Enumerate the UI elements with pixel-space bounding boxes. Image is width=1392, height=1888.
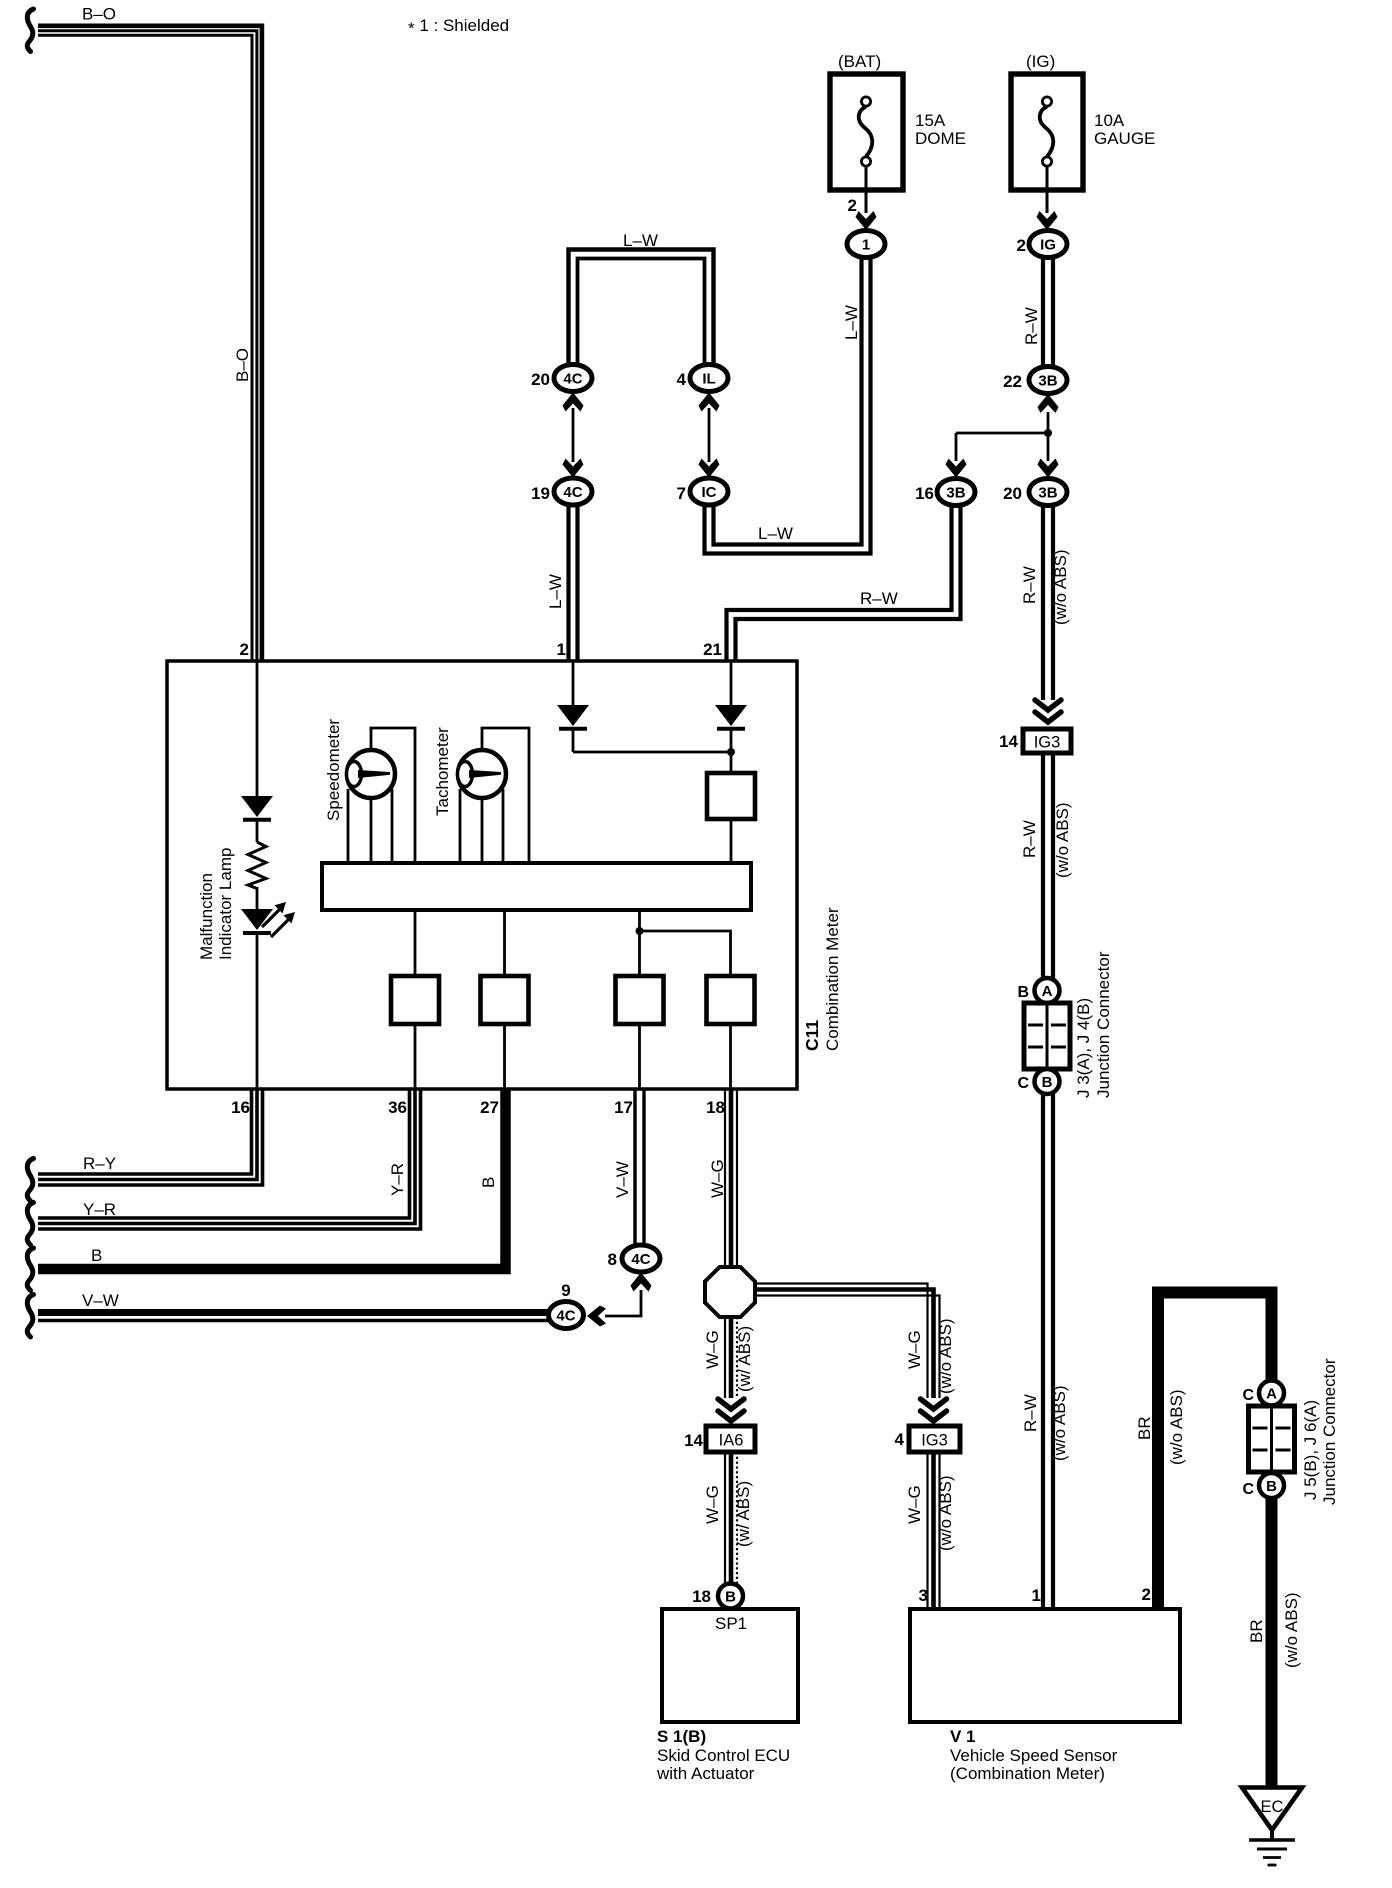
- connector 4 (IL): [677, 365, 728, 392]
- meter pin 16: [231, 1098, 250, 1117]
- svg-text:(IG): (IG): [1026, 52, 1055, 71]
- tachometer gauge: [433, 727, 506, 816]
- connector box IA6 pin 14: [684, 1426, 755, 1452]
- meter pin 1: [557, 640, 566, 659]
- connector box IG3 pin 14: [999, 729, 1071, 753]
- skid control ECU box S1(B): [656, 1609, 798, 1783]
- svg-text:L–W: L–W: [546, 574, 565, 609]
- svg-text:B: B: [1266, 1478, 1277, 1495]
- svg-text:* 1 : Shielded: * 1 : Shielded: [408, 16, 509, 38]
- svg-text:with Actuator: with Actuator: [656, 1764, 755, 1783]
- svg-text:V 1: V 1: [950, 1727, 976, 1746]
- svg-text:(w/ ABS): (w/ ABS): [734, 1481, 753, 1547]
- svg-text:4C: 4C: [556, 1307, 575, 1324]
- wire W-G (w/ ABS) shield node to IA6 pin 14: [703, 1317, 754, 1421]
- svg-text:16: 16: [915, 484, 934, 503]
- junction arrows between IL and IC connectors: [699, 393, 720, 478]
- meter pin 21: [703, 640, 722, 659]
- internal wire pin 21 with diode: [715, 661, 747, 774]
- speedometer gauge: [324, 719, 395, 821]
- svg-text:Malfunction: Malfunction: [197, 873, 216, 960]
- svg-text:(w/o ABS): (w/o ABS): [936, 1475, 955, 1551]
- svg-text:BR: BR: [1247, 1619, 1266, 1643]
- connector 22 (3B): [1003, 367, 1067, 394]
- svg-text:(w/o ABS): (w/o ABS): [1050, 1385, 1069, 1461]
- svg-text:(w/o ABS): (w/o ABS): [1167, 1389, 1186, 1465]
- connector 16 (3B): [915, 479, 975, 506]
- vehicle speed sensor box V1: [910, 1585, 1180, 1783]
- svg-text:7: 7: [677, 484, 686, 503]
- tachometer wires: [460, 728, 529, 864]
- internal wire and square to pin 36: [391, 910, 439, 1090]
- fuse 15A DOME (BAT): [830, 52, 966, 190]
- connector 20 (3B): [1003, 479, 1067, 506]
- connector 1 (BAT feed): [847, 231, 885, 258]
- svg-text:IC: IC: [702, 484, 717, 501]
- wire W-G shielded meter pin 18 to shield node: [708, 1090, 737, 1268]
- wire Y-R meter pin 36 to bracket: [38, 1090, 421, 1229]
- svg-text:18: 18: [692, 1587, 711, 1606]
- internal wire and square to pin 27: [481, 910, 529, 1090]
- wire B-O from bracket to combination meter pin 2: [38, 5, 262, 662]
- internal bus bar: [322, 863, 751, 910]
- svg-text:2: 2: [1017, 236, 1026, 255]
- connector IG pin 2: [1017, 231, 1067, 258]
- svg-text:C: C: [1242, 1481, 1254, 1498]
- svg-text:Y–R: Y–R: [83, 1200, 116, 1219]
- svg-text:(Combination Meter): (Combination Meter): [950, 1764, 1105, 1783]
- svg-text:V–W: V–W: [613, 1161, 632, 1198]
- wire L-W connector 19 to meter pin 1: [546, 503, 578, 661]
- svg-text:IG3: IG3: [1034, 734, 1061, 752]
- svg-text:20: 20: [531, 370, 550, 389]
- svg-text:14: 14: [999, 732, 1018, 751]
- wire B meter pin 27 to bracket: [38, 1090, 506, 1269]
- junction connector J5(B) J6(A): [1242, 1358, 1339, 1505]
- svg-text:Indicator Lamp: Indicator Lamp: [216, 848, 235, 960]
- connector 19 (4C): [531, 478, 592, 505]
- svg-text:W–G: W–G: [708, 1159, 727, 1198]
- svg-text:Y–R: Y–R: [388, 1163, 407, 1196]
- svg-text:R–W: R–W: [860, 589, 898, 608]
- svg-text:17: 17: [614, 1098, 633, 1117]
- svg-text:C: C: [1017, 1075, 1029, 1092]
- svg-text:Junction Connector: Junction Connector: [1320, 1358, 1339, 1505]
- svg-text:(BAT): (BAT): [838, 52, 881, 71]
- svg-text:1: 1: [862, 236, 870, 253]
- harness bracket B: [27, 1248, 33, 1291]
- internal branch wire and square to pin 18: [640, 931, 755, 1090]
- svg-text:(w/o ABS): (w/o ABS): [1282, 1592, 1301, 1668]
- harness bracket R-Y: [27, 1159, 33, 1202]
- junction connector J3(A) J4(B): [1017, 951, 1113, 1098]
- svg-text:4C: 4C: [563, 370, 582, 387]
- svg-text:C: C: [1242, 1387, 1254, 1404]
- svg-text:L–W: L–W: [758, 524, 793, 543]
- connector 7 (IC): [677, 478, 728, 505]
- junction arrows between 4C connectors 20 and 19: [563, 393, 584, 478]
- svg-text:4: 4: [895, 1430, 905, 1449]
- fuse 10A GAUGE (IG): [1011, 52, 1155, 190]
- svg-text:4: 4: [677, 370, 687, 389]
- wire W-G (w/o ABS) IG3 to V1 pin 3: [905, 1452, 955, 1609]
- svg-text:15A: 15A: [915, 111, 946, 130]
- diode D1 (MIL): [241, 796, 273, 820]
- meter pin 27: [480, 1098, 499, 1117]
- svg-text:A: A: [1042, 983, 1053, 1000]
- speedometer wires: [348, 728, 415, 864]
- wire L-W connector 1 to connector 7 IC: [705, 256, 871, 554]
- svg-text:B: B: [725, 1588, 736, 1605]
- svg-text:Speedometer: Speedometer: [324, 719, 343, 821]
- wire R-W connector 20 3B to junction IG3 pin 14 (w/o ABS): [1020, 505, 1070, 722]
- meter pin 17: [614, 1098, 633, 1117]
- svg-text:EC: EC: [1261, 1798, 1284, 1816]
- svg-text:4C: 4C: [563, 484, 582, 501]
- svg-text:27: 27: [480, 1098, 499, 1117]
- internal component square (pin 21 path): [707, 773, 755, 864]
- svg-text:3B: 3B: [1038, 484, 1057, 501]
- wire R-W junction connector B to V1 pin 1 (w/o ABS): [1021, 1094, 1069, 1609]
- wire V-W bracket to connector 9 4C: [38, 1291, 550, 1321]
- resistor (MIL): [248, 842, 266, 889]
- svg-text:V–W: V–W: [82, 1291, 119, 1310]
- svg-text:1: 1: [557, 640, 566, 659]
- wire R-Y meter pin 16 to bracket: [38, 1090, 263, 1185]
- svg-text:Skid Control ECU: Skid Control ECU: [657, 1746, 790, 1765]
- connector box IG3 pin 4: [895, 1426, 960, 1452]
- meter pin 36: [388, 1098, 407, 1117]
- note *1 Shielded: [408, 16, 509, 38]
- svg-text:W–G: W–G: [703, 1330, 722, 1369]
- svg-text:4C: 4C: [631, 1251, 650, 1268]
- wire fuse DOME pin 2 to connector 1: [848, 166, 877, 230]
- svg-text:IG: IG: [1040, 236, 1056, 253]
- harness bracket V-W: [27, 1295, 33, 1338]
- svg-text:36: 36: [388, 1098, 407, 1117]
- svg-text:R–W: R–W: [1022, 307, 1041, 345]
- svg-text:W–G: W–G: [905, 1485, 924, 1524]
- svg-text:Tachometer: Tachometer: [433, 727, 452, 816]
- svg-text:16: 16: [231, 1098, 250, 1117]
- wire L-W connector 20 4C to connector 4 IL: [569, 231, 714, 365]
- svg-text:(w/ ABS): (w/ ABS): [735, 1326, 754, 1392]
- svg-text:3B: 3B: [946, 484, 965, 501]
- wire V-W meter pin 17 to connector 8 4C: [613, 1090, 644, 1246]
- connector 20 (4C): [531, 365, 592, 392]
- wire BR junction connector B to ground EC (w/o ABS): [1247, 1498, 1301, 1789]
- svg-text:20: 20: [1003, 484, 1022, 503]
- svg-text:(w/o ABS): (w/o ABS): [1051, 549, 1070, 625]
- svg-text:R–W: R–W: [1020, 820, 1039, 858]
- svg-text:3: 3: [919, 1586, 928, 1605]
- junction arrows between 4C connectors 8 and 9: [587, 1273, 652, 1327]
- svg-text:IG3: IG3: [921, 1432, 948, 1450]
- svg-text:J 5(B), J 6(A): J 5(B), J 6(A): [1301, 1400, 1320, 1500]
- svg-text:S 1(B): S 1(B): [657, 1727, 706, 1746]
- meter pin 2: [240, 640, 249, 659]
- svg-text:W–G: W–G: [905, 1330, 924, 1369]
- svg-text:10A: 10A: [1094, 111, 1125, 130]
- wire R-W IG3 to junction connector A (w/o ABS): [1020, 753, 1072, 979]
- svg-text:2: 2: [848, 196, 857, 215]
- wire fuse GAUGE to connector IG: [1037, 166, 1058, 230]
- svg-text:Vehicle Speed Sensor: Vehicle Speed Sensor: [950, 1746, 1118, 1765]
- svg-text:B: B: [1042, 1074, 1053, 1091]
- svg-text:BR: BR: [1135, 1416, 1154, 1440]
- harness bracket Y-R: [27, 1203, 33, 1246]
- meter pin 18: [706, 1098, 725, 1117]
- svg-text:8: 8: [608, 1250, 617, 1269]
- connector B (SP1) on skid control ECU: [692, 1584, 743, 1609]
- svg-text:B: B: [1017, 984, 1029, 1001]
- svg-text:18: 18: [706, 1098, 725, 1117]
- svg-text:SP1: SP1: [715, 1614, 747, 1633]
- svg-text:2: 2: [1142, 1585, 1151, 1604]
- svg-text:L–W: L–W: [623, 231, 658, 250]
- internal wire pin 1 with diode: [557, 661, 731, 752]
- connector 8 (4C): [608, 1245, 660, 1272]
- svg-text:B: B: [91, 1246, 102, 1265]
- ground EC: [1242, 1788, 1302, 1866]
- svg-text:B: B: [479, 1177, 498, 1188]
- svg-text:19: 19: [531, 484, 550, 503]
- svg-text:(w/o ABS): (w/o ABS): [936, 1318, 955, 1394]
- svg-text:22: 22: [1003, 372, 1022, 391]
- svg-text:21: 21: [703, 640, 722, 659]
- svg-text:B–O: B–O: [82, 5, 116, 24]
- svg-text:R–W: R–W: [1021, 1394, 1040, 1432]
- wire W-G (w/ ABS) IA6 to skid control ECU pin 18 B: [703, 1452, 753, 1584]
- svg-text:14: 14: [684, 1431, 703, 1450]
- svg-text:9: 9: [561, 1281, 570, 1300]
- svg-text:C11: C11: [802, 1020, 822, 1051]
- connector 9 (4C): [549, 1281, 584, 1329]
- svg-text:IL: IL: [702, 370, 715, 387]
- internal wire and square to pin 17 with branch node: [616, 910, 664, 1090]
- internal wire MIL branch (pin 2 to pin 16): [256, 661, 259, 1090]
- wire W-G (w/o ABS) shield node to IG3 pin 4: [755, 1284, 955, 1422]
- harness connector bracket (B-O, from other page): [27, 9, 33, 52]
- label Malfunction Indicator Lamp: [197, 848, 235, 960]
- LED malfunction indicator lamp: [241, 902, 295, 937]
- wire BR V1 pin 2 to junction connector A (w/o ABS): [1135, 1293, 1272, 1610]
- svg-text:J 3(A), J 4(B): J 3(A), J 4(B): [1074, 998, 1093, 1098]
- combination meter C11 box: [167, 661, 842, 1089]
- junction arrows and node below 22 3B: [946, 394, 1059, 478]
- svg-text:2: 2: [240, 640, 249, 659]
- svg-text:R–Y: R–Y: [83, 1154, 116, 1173]
- wire R-W connector IG to connector 22 3B: [1022, 256, 1053, 368]
- svg-text:1: 1: [1032, 1586, 1041, 1605]
- svg-text:DOME: DOME: [915, 129, 966, 148]
- svg-text:L–W: L–W: [842, 305, 861, 340]
- svg-text:W–G: W–G: [703, 1485, 722, 1524]
- svg-text:3B: 3B: [1038, 372, 1057, 389]
- svg-text:Combination Meter: Combination Meter: [823, 907, 842, 1051]
- svg-text:A: A: [1266, 1385, 1277, 1402]
- svg-text:R–W: R–W: [1020, 566, 1039, 604]
- svg-text:GAUGE: GAUGE: [1094, 129, 1155, 148]
- wire R-W connector 16 3B to meter pin 21: [727, 504, 961, 661]
- svg-text:Junction Connector: Junction Connector: [1094, 951, 1113, 1098]
- svg-text:(w/o ABS): (w/o ABS): [1053, 802, 1072, 878]
- svg-text:IA6: IA6: [719, 1432, 744, 1450]
- svg-text:B–O: B–O: [233, 348, 252, 382]
- shield node (octagon): [705, 1267, 755, 1317]
